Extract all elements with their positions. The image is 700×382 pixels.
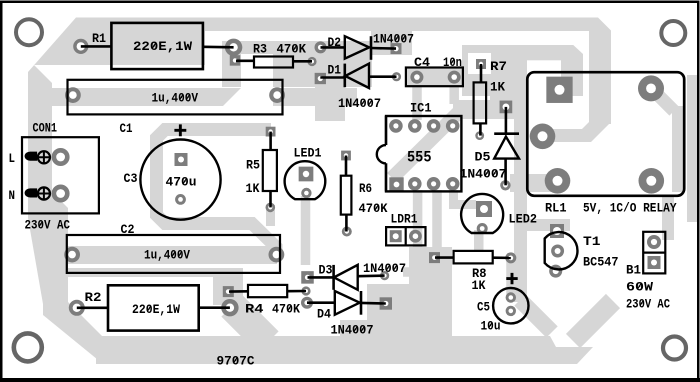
relay RL1 (527, 72, 684, 196)
label RL1 (545, 201, 567, 216)
pad T1 emitter (549, 265, 562, 278)
pad C5 minus (506, 306, 516, 316)
pad D4 anode (301, 297, 313, 309)
svg-text:5V, 1C/O RELAY: 5V, 1C/O RELAY (583, 201, 677, 216)
value T1 (583, 255, 619, 270)
wire D5 bottom (504, 159, 507, 186)
capacitor C1 (68, 80, 283, 115)
label board id (217, 354, 255, 369)
pad R2.1 (69, 300, 85, 316)
wire R1 left (81, 45, 112, 48)
pad C2.1 (64, 247, 80, 263)
wire trace: narrow traces (301, 196, 311, 265)
CON1 N screw symbol (38, 187, 50, 199)
LDR1 (386, 227, 425, 245)
wire trace: central slab (367, 247, 452, 340)
svg-text:220E,1W: 220E,1W (133, 39, 192, 54)
wire D4 cathode (361, 302, 386, 305)
pad IC1 pin6 (427, 119, 441, 133)
svg-text:1N4007: 1N4007 (373, 32, 414, 47)
pad LED1 anode (299, 167, 314, 182)
svg-text:LED2: LED2 (509, 212, 538, 227)
wire trace: band B horizontal (462, 45, 583, 60)
svg-text:1N4007: 1N4007 (460, 167, 507, 182)
pad R7.2 (475, 131, 484, 140)
pad R5.1 (266, 127, 276, 137)
wire trace: TR pad connector + inside right strip (652, 89, 674, 111)
svg-text:RL1: RL1 (545, 201, 567, 216)
label D1 (328, 63, 342, 78)
wire trace (narrow) (417, 87, 454, 120)
pad LDR1.2 (409, 230, 422, 243)
mounting hole bottom-right (663, 337, 686, 360)
wire trace (narrow) (432, 190, 442, 256)
pad RL1 coil (638, 75, 664, 101)
wire R3 left (236, 59, 254, 62)
pad C3 plus (175, 153, 188, 166)
wire trace (narrow) (449, 190, 476, 205)
pad C4.1 (410, 71, 423, 84)
label LDR1 (391, 212, 418, 227)
pad C2.2 (269, 247, 285, 263)
wire trace (narrow) (266, 205, 275, 226)
svg-text:R7: R7 (490, 59, 507, 74)
wire D3 cathode (308, 276, 334, 279)
connector CON1 (22, 137, 99, 213)
svg-text:R6: R6 (359, 181, 372, 196)
wire trace: slab bottom-left extension (340, 320, 367, 340)
resistor R5 (263, 150, 277, 191)
pad RL1 NO (639, 168, 665, 194)
pad LED2 anode (476, 201, 492, 217)
pad R3.2 (307, 57, 316, 66)
wire D4 anode (307, 301, 335, 304)
value R4 (272, 302, 300, 317)
pad R4.2 (301, 286, 310, 295)
svg-text:470K: 470K (359, 201, 388, 216)
wire R6 top (345, 156, 348, 176)
svg-text:470u: 470u (166, 175, 197, 190)
wire trace (narrow) (413, 190, 423, 252)
pad C1.2 (269, 87, 285, 103)
pad IC1 pin2 (408, 177, 422, 191)
pad D1 cathode (315, 73, 326, 84)
svg-text:D1: D1 (328, 63, 342, 78)
wire trace: diagonal through IC1 (392, 109, 462, 178)
svg-text:D2: D2 (328, 35, 342, 50)
svg-text:N: N (9, 188, 16, 203)
value D1 (338, 96, 381, 111)
svg-text:L: L (9, 151, 16, 166)
wire trace: strip right of B1 (662, 196, 674, 240)
resistor R2 (108, 285, 199, 330)
label R5 (246, 158, 260, 173)
label C5 (477, 300, 490, 315)
wire trace: patch below D1 1N4007 text (315, 87, 345, 121)
pad R7.1 (476, 59, 486, 69)
wire trace: R4 slab (213, 268, 243, 305)
value R2 (132, 302, 180, 317)
pad C4.2 (448, 71, 461, 84)
pad R6.2 (342, 227, 352, 237)
diode D1 (345, 64, 369, 88)
value C1 (152, 91, 199, 106)
svg-text:LDR1: LDR1 (391, 212, 418, 227)
label R6 (359, 181, 372, 196)
value R7 (490, 80, 505, 95)
wire trace: mass at R7 column (462, 45, 490, 96)
svg-text:C5: C5 (477, 300, 490, 315)
pad D4 cathode (380, 297, 392, 309)
diode D5 (494, 134, 519, 159)
svg-text:C2: C2 (121, 222, 135, 237)
svg-text:60W: 60W (626, 280, 653, 295)
pad CON1 L (52, 148, 70, 166)
value D3 (363, 261, 406, 276)
label C1 (120, 121, 133, 136)
pad IC1 pin4 (446, 177, 460, 191)
LED1 (285, 161, 326, 199)
capacitor C4 (406, 68, 463, 87)
wire D1 cathode (320, 76, 345, 79)
wire R8 right (493, 256, 511, 259)
pad LDR1.1 (390, 230, 402, 242)
CON1 L terminal blob (25, 152, 38, 161)
pad B1.1 (647, 235, 661, 249)
value R1 (133, 39, 192, 54)
svg-text:R2: R2 (85, 290, 102, 305)
wire trace: blob left of D5 pad (453, 100, 490, 119)
value C2 (144, 248, 190, 263)
wire trace (narrow) (672, 106, 685, 192)
value C3 (166, 175, 197, 190)
pad LED2 cathode (477, 223, 488, 234)
pad R5.2 (266, 203, 276, 213)
label T1 (583, 234, 601, 249)
svg-text:LED1: LED1 (294, 146, 322, 161)
label N (9, 188, 16, 203)
resistor R7 (474, 82, 487, 123)
svg-text:230V AC: 230V AC (626, 297, 670, 312)
mounting hole bottom-left (14, 333, 42, 361)
wire trace: C4 interior patch (406, 68, 466, 87)
battery/bulb terminal B1 (643, 232, 665, 274)
wire trace: C1 horizontal band (50, 88, 357, 106)
label R3 (253, 42, 267, 57)
resistor R1 (111, 23, 202, 69)
value R3 (277, 42, 307, 57)
svg-text:R3: R3 (253, 42, 267, 57)
wire trace (narrow) (506, 256, 516, 296)
svg-text:R1: R1 (92, 31, 106, 46)
wire R7 top (480, 64, 483, 82)
svg-text:470K: 470K (277, 42, 307, 57)
svg-text:1K: 1K (472, 278, 486, 293)
pad R2.2 (221, 299, 238, 316)
label D4 (317, 307, 331, 322)
svg-text:IC1: IC1 (410, 101, 432, 116)
capacitor C2 (67, 235, 280, 273)
svg-text:470K: 470K (272, 302, 300, 317)
label IC1 (410, 101, 432, 116)
svg-text:D5: D5 (475, 150, 491, 165)
wire trace: T1 stub (514, 219, 570, 231)
resistor R8 (454, 251, 493, 264)
label C3 (124, 171, 138, 186)
svg-text:R5: R5 (246, 158, 260, 173)
svg-text:1u,400V: 1u,400V (152, 91, 199, 106)
value D5 (460, 167, 507, 182)
label R8 (472, 266, 487, 281)
CON1 N terminal blob (25, 188, 38, 197)
value R5 (246, 181, 260, 196)
pad D5 anode (500, 180, 510, 190)
label R7 (490, 59, 507, 74)
transistor Q1/T1 (545, 232, 578, 269)
label L (9, 151, 16, 166)
label C2 (121, 222, 135, 237)
wire R5 bottom (269, 191, 272, 207)
value C5 (481, 319, 501, 334)
label CON1 (33, 121, 58, 136)
label R1 (92, 31, 106, 46)
label R4 (245, 302, 264, 317)
mounting hole top-left (16, 19, 42, 45)
wire trace: bottom band (96, 336, 593, 364)
wire R8 left (435, 256, 454, 259)
svg-text:C1: C1 (120, 121, 133, 136)
pad IC1 pin3 (427, 177, 441, 191)
wire trace: BL relay pad feed (510, 174, 558, 192)
label LED1 (294, 146, 322, 161)
wire R3 right (293, 60, 312, 63)
svg-text:1N4007: 1N4007 (331, 323, 374, 338)
wire R7 bottom (479, 123, 482, 135)
wire D1 anode (369, 75, 397, 78)
svg-text:220E,1W: 220E,1W (132, 302, 180, 317)
pad RL1 NC (545, 168, 571, 194)
wire trace: top-left band: CON1 drop + diagonal + top strip + right bevel down into relay (28, 18, 611, 206)
wire trace: patch behind D2 1N4007 text / square pad (371, 28, 412, 55)
pad RL1 coil2 (546, 77, 572, 103)
label C3 plus (174, 124, 186, 136)
wire R5 top (269, 132, 272, 150)
label D5 (475, 150, 491, 165)
mounting hole top-right (661, 21, 685, 45)
wire trace: relay right outside strip (687, 75, 697, 222)
wire D2 anode (321, 46, 345, 49)
pad CON1 N (52, 185, 70, 203)
wire R4 left (229, 290, 248, 293)
svg-text:BC547: BC547 (583, 255, 619, 270)
svg-text:1N4007: 1N4007 (338, 96, 381, 111)
wire R2 right (199, 306, 230, 309)
svg-text:D4: D4 (317, 307, 331, 322)
svg-text:C3: C3 (124, 171, 138, 186)
pad R1.1 (73, 39, 88, 54)
wire R2 left (77, 306, 108, 309)
svg-text:C4: C4 (414, 55, 430, 70)
svg-text:1N4007: 1N4007 (363, 261, 406, 276)
svg-text:555: 555 (407, 149, 432, 167)
label C5 plus (506, 273, 517, 284)
value CON1 (25, 218, 71, 233)
CON1 L screw symbol (38, 151, 50, 163)
wire R4 right (287, 290, 306, 293)
resistor R4 (248, 285, 287, 297)
svg-text:9707C: 9707C (217, 354, 255, 369)
label R2 (85, 290, 102, 305)
wire trace: B1 to bottom band diagonal stub (573, 301, 613, 341)
wire trace: C2 band (45, 246, 277, 264)
pad D1 anode (392, 72, 401, 81)
label D2 (328, 35, 342, 50)
pad R8.1 (429, 252, 440, 263)
svg-text:1K: 1K (490, 80, 505, 95)
label B1 (626, 263, 641, 278)
pad B1.2 (648, 256, 661, 269)
label D3 (319, 263, 333, 278)
pad T1 collector (550, 224, 564, 238)
wire trace: slab foot diagonal into bottom band (520, 300, 552, 332)
pad T1 base (551, 245, 564, 258)
wire D2 cathode (371, 47, 396, 50)
value R8 (472, 278, 486, 293)
pad IC1 pin5 (446, 119, 460, 133)
capacitor C5 (493, 288, 528, 323)
wire D3 anode (358, 274, 385, 277)
resistor R6 (341, 176, 352, 215)
wire trace: thin band below C2 (60, 268, 243, 277)
value B1 power (626, 280, 653, 295)
pad C1.1 (65, 87, 81, 103)
value IC1 (407, 149, 432, 167)
wire R6 bottom (345, 215, 348, 232)
pad R6.1 (341, 151, 351, 161)
svg-text:230V AC: 230V AC (25, 218, 71, 233)
resistor R3 (254, 57, 293, 68)
wire trace: mass right of R7 down to D5 pad zone (490, 45, 527, 119)
IC U1 555 (377, 116, 462, 191)
pad D2 cathode (391, 43, 402, 54)
pad IC1 pin1 (389, 177, 403, 191)
wire trace: relay internal: vertical->ML pad (540, 100, 611, 142)
pad R4.1 (223, 286, 234, 297)
pad C5 plus (506, 292, 516, 302)
pad RL1 common (530, 124, 556, 150)
pad R3.1 (230, 55, 241, 66)
diode D2 (345, 36, 371, 60)
pad IC1 pin7 (408, 119, 422, 133)
pad D5 cathode (500, 101, 513, 114)
value C4 (443, 55, 462, 70)
svg-text:1u,400V: 1u,400V (144, 248, 190, 263)
value RL1 (583, 201, 677, 216)
wire R1 right (203, 45, 234, 48)
pad D3 cathode (301, 271, 314, 284)
value R6 (359, 201, 388, 216)
diode D3 (334, 265, 358, 290)
label LED2 (509, 212, 538, 227)
value D4 (331, 323, 374, 338)
pad C3 minus (175, 194, 186, 205)
capacitor C3 (140, 140, 220, 220)
pad R1.2 (225, 39, 242, 56)
label C4 (414, 55, 430, 70)
pad D3 anode (380, 271, 389, 280)
svg-text:10n: 10n (443, 55, 462, 70)
svg-text:T1: T1 (583, 234, 601, 249)
pad D2 anode (315, 41, 327, 53)
svg-text:D3: D3 (319, 263, 333, 278)
wire D5 top (505, 107, 508, 134)
pad IC1 pin8 (389, 119, 403, 133)
svg-text:R4: R4 (245, 302, 264, 317)
svg-text:CON1: CON1 (33, 121, 58, 136)
pad R8.2 (505, 252, 516, 263)
value D2 (373, 32, 414, 47)
svg-text:B1: B1 (626, 263, 641, 278)
wire trace: LED2 cathode down trace (474, 230, 484, 252)
value B1 volts (626, 297, 670, 312)
svg-text:1K: 1K (246, 181, 260, 196)
wire trace: R4 slab bevel into bottom band (232, 306, 268, 342)
wire trace (narrow) (403, 267, 437, 277)
LED2 (461, 194, 503, 233)
wire trace: patch behind R3/D1/D2 (222, 41, 372, 87)
pad LED1 cathode (301, 188, 311, 198)
wire trace: vertical slab left of relay (514, 85, 527, 302)
wire trace: vertical into relay to TL pad (561, 45, 583, 96)
diode D4 (335, 291, 361, 315)
wire trace: C3 loop (157, 130, 277, 257)
